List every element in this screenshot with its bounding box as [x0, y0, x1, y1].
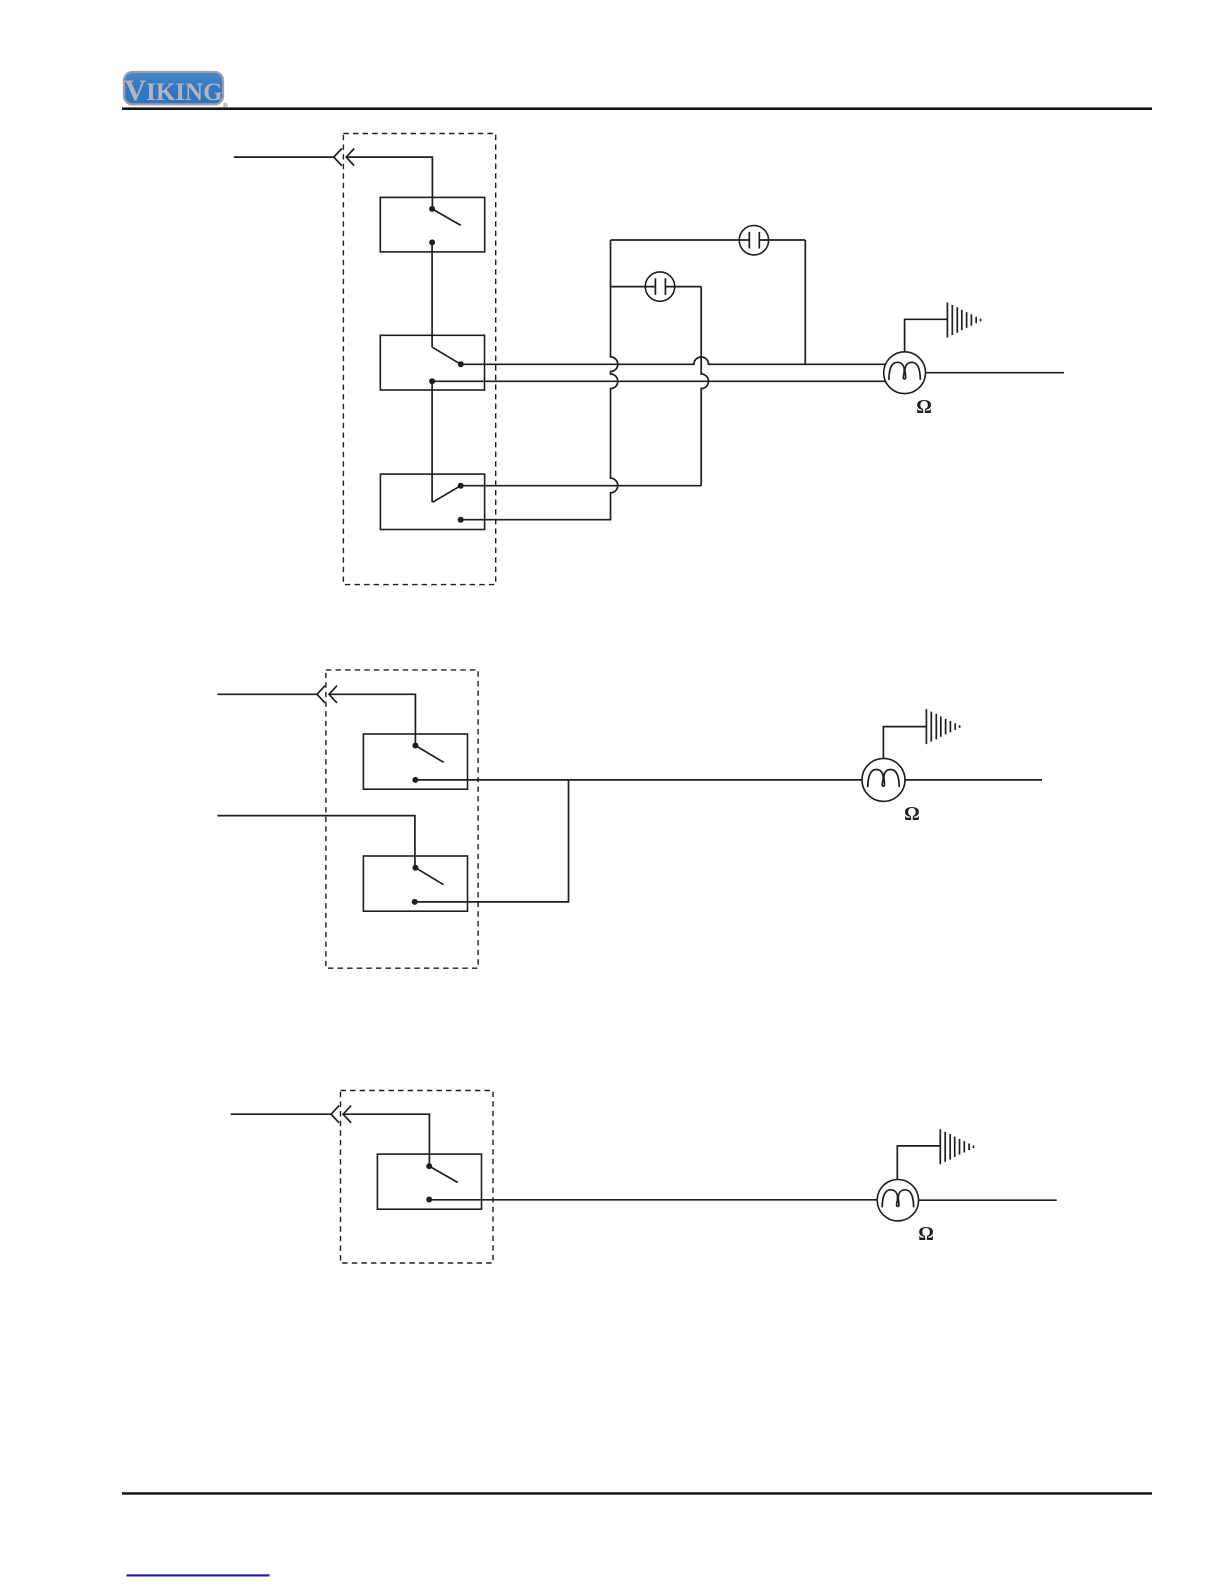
svg-text:Ω: Ω	[918, 1224, 934, 1245]
svg-text:Ω: Ω	[916, 397, 932, 418]
svg-text:Ω: Ω	[904, 804, 920, 825]
svg-text:VIKING: VIKING	[124, 74, 222, 107]
